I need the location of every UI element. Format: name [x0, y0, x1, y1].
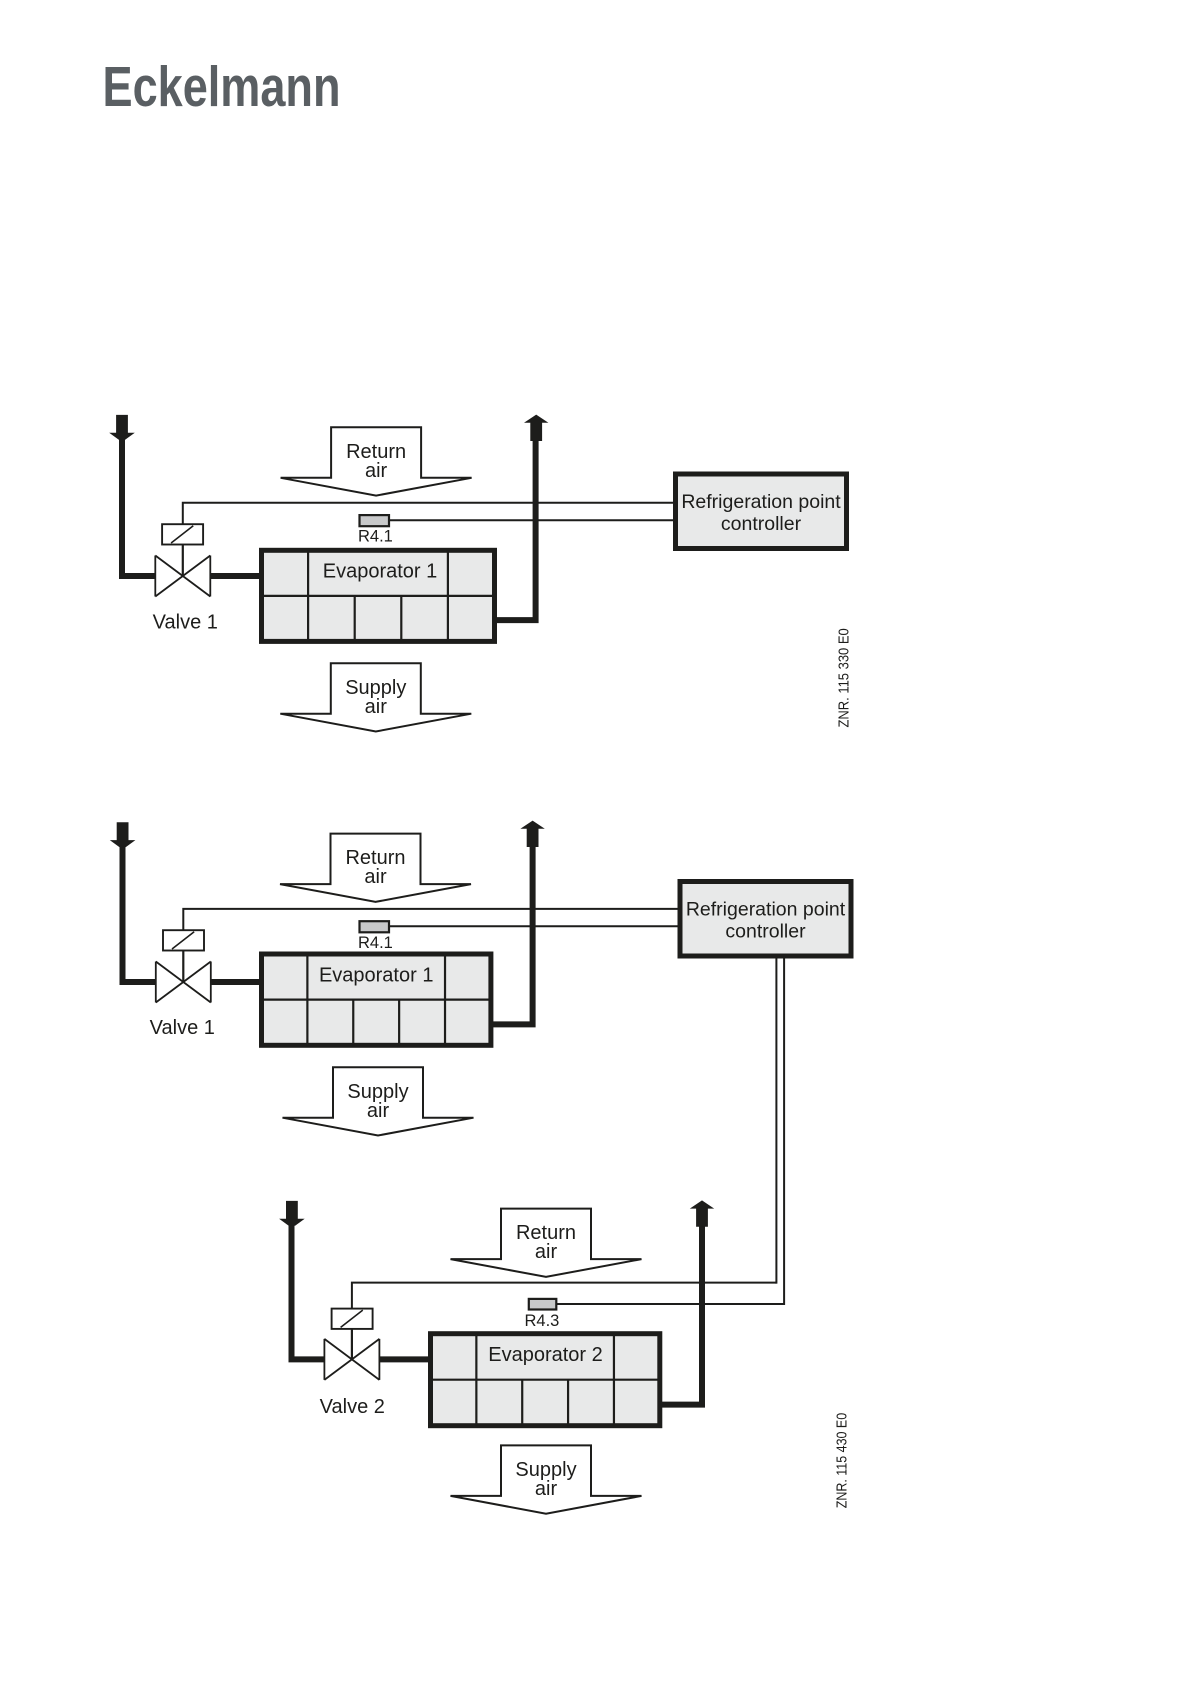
stem: solenoid to valve 1: [182, 545, 184, 577]
suction pipe arrow head (diagram 1 left): [109, 415, 135, 440]
pipe: evaporator 1 outlet (diagram 1 right): [494, 430, 536, 620]
svg-text:R4.1: R4.1: [358, 528, 393, 546]
evaporator 1 (diagram 2): [262, 954, 491, 1045]
suction pipe arrow head (diagram 3 left): [279, 1201, 305, 1226]
solenoid coil of valve 1: [162, 524, 203, 544]
stem: solenoid to valve 1 (diagram 2): [182, 951, 184, 983]
pipe: valve 1 to evaporator 1: [210, 573, 262, 579]
svg-text:controller: controller: [721, 513, 802, 535]
svg-text:air: air: [535, 1241, 558, 1263]
discharge pipe arrow head (diagram 2 right): [520, 821, 544, 847]
evaporator 1 (diagram 1): [262, 550, 495, 641]
solenoid coil of valve 1 (diagram 2): [163, 930, 204, 950]
solenoid coil of valve 2: [332, 1309, 373, 1329]
svg-text:Eckelmann: Eckelmann: [103, 55, 341, 118]
Supply air block arrow: [280, 663, 471, 731]
refrigeration point controller (diagram 1): [676, 474, 847, 549]
sensor R4.1: [360, 515, 390, 526]
Return air block arrow: [281, 427, 472, 495]
wire: sensor R4.1 to controller 1: [389, 519, 675, 521]
svg-text:Refrigeration point: Refrigeration point: [681, 491, 841, 513]
valve 1 body: [155, 556, 183, 597]
stem: solenoid to valve 2: [351, 1329, 353, 1360]
valve 1 body (diagram 2): [156, 962, 184, 1003]
pipe: valve 2 to evaporator 2: [379, 1356, 431, 1362]
sensor R4.1 (diagram 2): [360, 921, 390, 932]
suction pipe arrow head (diagram 2 left): [110, 822, 136, 847]
svg-text:ZNR. 115 330 E0: ZNR. 115 330 E0: [836, 628, 852, 727]
svg-text:R4.3: R4.3: [525, 1312, 560, 1330]
wire / suction pipe into valve 1: [122, 430, 157, 576]
wire / suction pipe into valve 2: [292, 1216, 327, 1359]
svg-text:Valve 1: Valve 1: [153, 612, 218, 634]
pipe: evaporator 1 outlet (diagram 2 right): [490, 836, 533, 1024]
wire: valve 1 solenoid to controller 2: [183, 909, 679, 931]
svg-text:air: air: [535, 1478, 558, 1500]
Supply air block arrow: [283, 1067, 474, 1135]
wire / suction pipe into valve 1 (diagram 2): [123, 838, 158, 982]
valve 2 body: [324, 1339, 352, 1380]
svg-text:Evaporator 2: Evaporator 2: [488, 1344, 603, 1366]
svg-text:ZNR. 115 430 E0: ZNR. 115 430 E0: [835, 1413, 851, 1509]
svg-text:R4.1: R4.1: [358, 934, 393, 952]
svg-text:Evaporator 1: Evaporator 1: [319, 964, 434, 986]
Return air block arrow: [451, 1209, 642, 1277]
wire: controller 2 to sensor R4.3 (drop B): [783, 956, 785, 1305]
svg-text:air: air: [364, 866, 387, 888]
svg-text:air: air: [365, 696, 388, 718]
discharge pipe arrow head (diagram 1 right): [524, 415, 548, 441]
svg-text:air: air: [367, 1100, 390, 1122]
sensor R4.3: [529, 1299, 557, 1310]
pipe: valve 1 to evaporator 1 (diagram 2): [211, 979, 263, 985]
Return air block arrow: [280, 834, 471, 902]
refrigeration point controller (diagram 2): [680, 882, 851, 957]
Supply air block arrow: [451, 1445, 642, 1513]
discharge pipe arrow head (diagram 3 right): [690, 1200, 714, 1226]
svg-text:Refrigeration point: Refrigeration point: [686, 898, 846, 920]
svg-text:Evaporator 1: Evaporator 1: [323, 560, 438, 582]
wire: drop B across to sensor R4.3: [556, 1303, 785, 1305]
svg-text:Valve 1: Valve 1: [150, 1017, 215, 1039]
svg-text:air: air: [365, 460, 388, 482]
wire: controller 2 to valve 2 circuit (drop A): [775, 956, 777, 1284]
wire: valve 1 solenoid to controller 1: [183, 503, 675, 525]
pipe: evaporator 2 outlet (diagram 3 right): [659, 1216, 702, 1405]
evaporator 2: [431, 1334, 660, 1426]
svg-text:controller: controller: [725, 920, 806, 942]
wire: sensor R4.1 to controller 2: [389, 925, 680, 927]
wire: drop A across to valve 2 solenoid: [352, 1283, 777, 1310]
svg-text:Valve 2: Valve 2: [320, 1396, 385, 1418]
